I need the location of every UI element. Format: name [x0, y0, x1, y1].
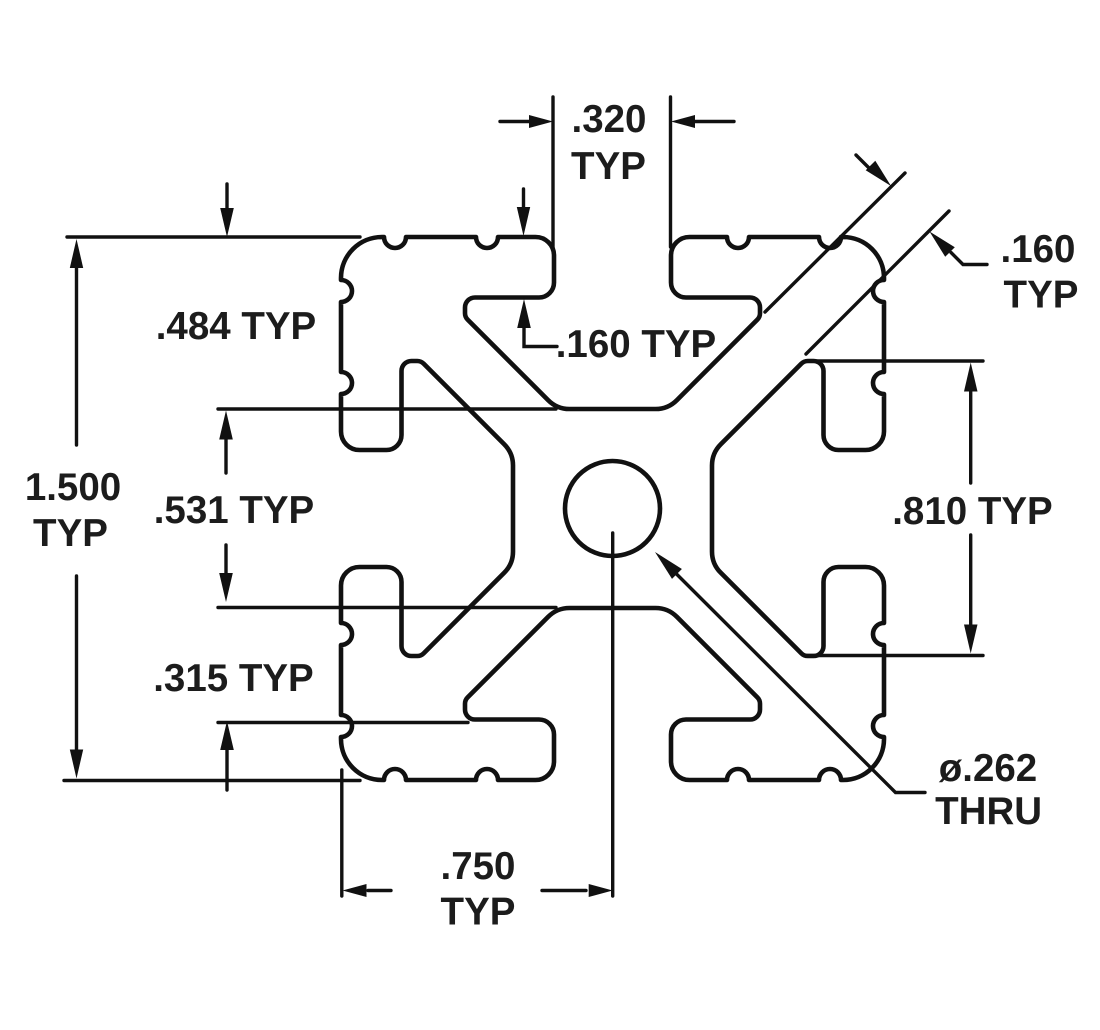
svg-text:.160: .160 [1001, 228, 1076, 271]
dim 1.500 line lower segment [75, 576, 78, 755]
dim .810 arrow shaft lower [969, 535, 972, 627]
dim .531 arrowhead down [219, 573, 233, 602]
dim .484 arrowhead down [220, 208, 234, 237]
dim .160 slot arrowhead down [517, 207, 530, 236]
dim .320 arrowhead right [671, 115, 695, 128]
center hole ø.262 [565, 461, 660, 556]
svg-text:TYP: TYP [33, 512, 108, 555]
dim .320 arrowhead left [529, 115, 553, 128]
svg-text:.160 TYP: .160 TYP [556, 323, 717, 366]
dim .160 slot arrowhead up [517, 299, 531, 328]
svg-text:THRU: THRU [935, 790, 1042, 833]
hole leader line ø.262 [672, 570, 925, 793]
dim .531 extension line [218, 606, 556, 609]
svg-text:.484 TYP: .484 TYP [156, 305, 317, 348]
dim .315 arrow shaft [225, 747, 228, 790]
dim .750 arrow shaft right [542, 889, 586, 892]
dim .750 arrow shaft left [368, 889, 391, 892]
dim .531 arrowhead up [219, 411, 233, 440]
dim 1.500 arrowhead up [70, 239, 83, 268]
svg-text:TYP: TYP [441, 891, 516, 934]
dim .320 arrow shaft right [693, 120, 734, 123]
svg-text:.750: .750 [441, 845, 516, 888]
svg-text:.315 TYP: .315 TYP [153, 657, 314, 700]
dim .160 web arrowhead lower-right [866, 161, 891, 186]
dim .750 arrowhead left [343, 884, 367, 897]
dim .484 arrow shaft (top, above face) [225, 184, 228, 212]
svg-text:.810 TYP: .810 TYP [892, 490, 1053, 533]
svg-text:TYP: TYP [1004, 274, 1079, 317]
dim .810 extension line top [806, 359, 983, 362]
dim .160 slot arrow shaft down (above face) [522, 189, 525, 211]
dim .810 arrowhead down [964, 625, 978, 654]
dim .810 arrowhead up [964, 363, 978, 392]
web extension line lower (.160 web) [806, 211, 949, 354]
dim .750 center line of hole [611, 533, 614, 896]
dim .160 web arrow shaft upper-left [856, 155, 872, 171]
dim .160 web arrow leader elbow [951, 253, 987, 265]
svg-text:ø.262: ø.262 [939, 747, 1037, 790]
dim .160 slot arrow shaft up + elbow [524, 326, 557, 347]
dim .320 arrow shaft left [500, 120, 531, 123]
dim .750 arrowhead right [589, 884, 613, 897]
dim 1.500 arrowhead down [70, 750, 83, 779]
svg-text:1.500: 1.500 [25, 466, 121, 509]
dim 1.500 extension line bottom [64, 779, 360, 782]
dim 1.500 extension line top [67, 235, 360, 238]
dim .531 arrow shaft lower [224, 545, 227, 577]
dim .160 web arrowhead upper-left [930, 232, 955, 257]
web extension line upper (.160 web) [765, 173, 905, 312]
dim 1.500 line upper segment [75, 263, 78, 445]
hole leader arrowhead [655, 552, 682, 579]
extrusion profile outline [341, 237, 884, 780]
svg-text:.531 TYP: .531 TYP [154, 489, 315, 532]
dim .320 extension line right [669, 97, 672, 247]
dim .531 arrow shaft upper [224, 436, 227, 473]
dim .484 extension line [218, 407, 556, 410]
dim .810 arrow shaft upper [969, 391, 972, 483]
dim .750 extension line left [340, 770, 343, 896]
svg-text:TYP: TYP [571, 145, 646, 188]
dim .315 extension line [218, 721, 468, 724]
dim .810 extension line bottom [806, 654, 983, 657]
dim .315 arrowhead up [220, 721, 234, 750]
dim .320 extension line left [551, 97, 554, 247]
svg-text:.320: .320 [572, 98, 647, 141]
